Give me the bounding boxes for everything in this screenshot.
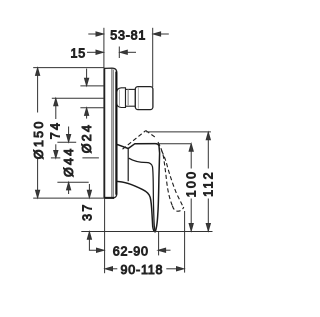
left bottom extension line (wall)	[104, 198, 106, 273]
knob joint ring	[126, 89, 136, 106]
svg-text:112: 112	[201, 170, 215, 197]
dim 37 arrows (outside)	[88, 184, 90, 191]
escutcheon plate (side view)	[104, 68, 117, 198]
handle inner swoosh line	[129, 158, 155, 231]
handle hub front line	[127, 149, 129, 182]
svg-text:74: 74	[49, 121, 63, 140]
dim D44 arrows (outside)	[68, 127, 70, 136]
lever handle (solid, down position)	[117, 144, 160, 232]
svg-text:53-81: 53-81	[110, 28, 146, 42]
dim D24 arrows (outside)	[86, 69, 88, 80]
dim texts	[32, 28, 215, 277]
dim D24 extension lines	[80, 85, 104, 87]
dashed lever outer edge	[162, 151, 183, 206]
svg-text:15: 15	[70, 46, 86, 60]
dashed lever top edge	[146, 131, 157, 139]
svg-text:62-90: 62-90	[113, 245, 149, 259]
dashed lever inner edge	[158, 142, 172, 206]
dashed tip extension line	[184, 211, 186, 273]
svg-text:Ø150: Ø150	[32, 119, 46, 159]
dim 53-81 line + arrows	[88, 33, 97, 35]
svg-text:Ø24: Ø24	[80, 123, 94, 154]
dim D150 line + arrows	[37, 68, 39, 113]
dim 112 line + arrows	[207, 132, 209, 168]
plate bottom extension line	[33, 197, 114, 199]
dim 53-81 extension lines	[103, 28, 105, 68]
handle top extension line	[157, 143, 191, 145]
handle axis extension line	[51, 157, 60, 159]
dashed lever tip arc	[172, 206, 183, 211]
knob head	[135, 87, 153, 110]
svg-text:100: 100	[184, 170, 198, 198]
dashed-top extension line	[146, 131, 211, 133]
dim 100 line + arrows	[190, 144, 192, 169]
dim 15 line + arrows	[87, 51, 97, 53]
solid tip extension line	[158, 231, 160, 255]
svg-text:37: 37	[80, 202, 94, 221]
svg-text:Ø44: Ø44	[62, 146, 76, 177]
dim 62-90 arrows (outside)	[97, 248, 104, 252]
dimensions	[33, 28, 212, 273]
dim D44 extension lines	[57, 141, 76, 143]
dashed lever back edge	[123, 131, 146, 150]
dim 74 line + arrows	[55, 98, 57, 119]
dim 90-118 line + arrows (inside)	[105, 267, 112, 271]
bottom tip extension line	[81, 231, 212, 233]
knob axis extension line	[52, 97, 104, 99]
svg-text:90-118: 90-118	[121, 263, 164, 277]
lever handle (dashed, alternate up position)	[123, 131, 184, 212]
plate top extension line	[33, 67, 104, 69]
knob neck (sleeve)	[117, 88, 126, 108]
